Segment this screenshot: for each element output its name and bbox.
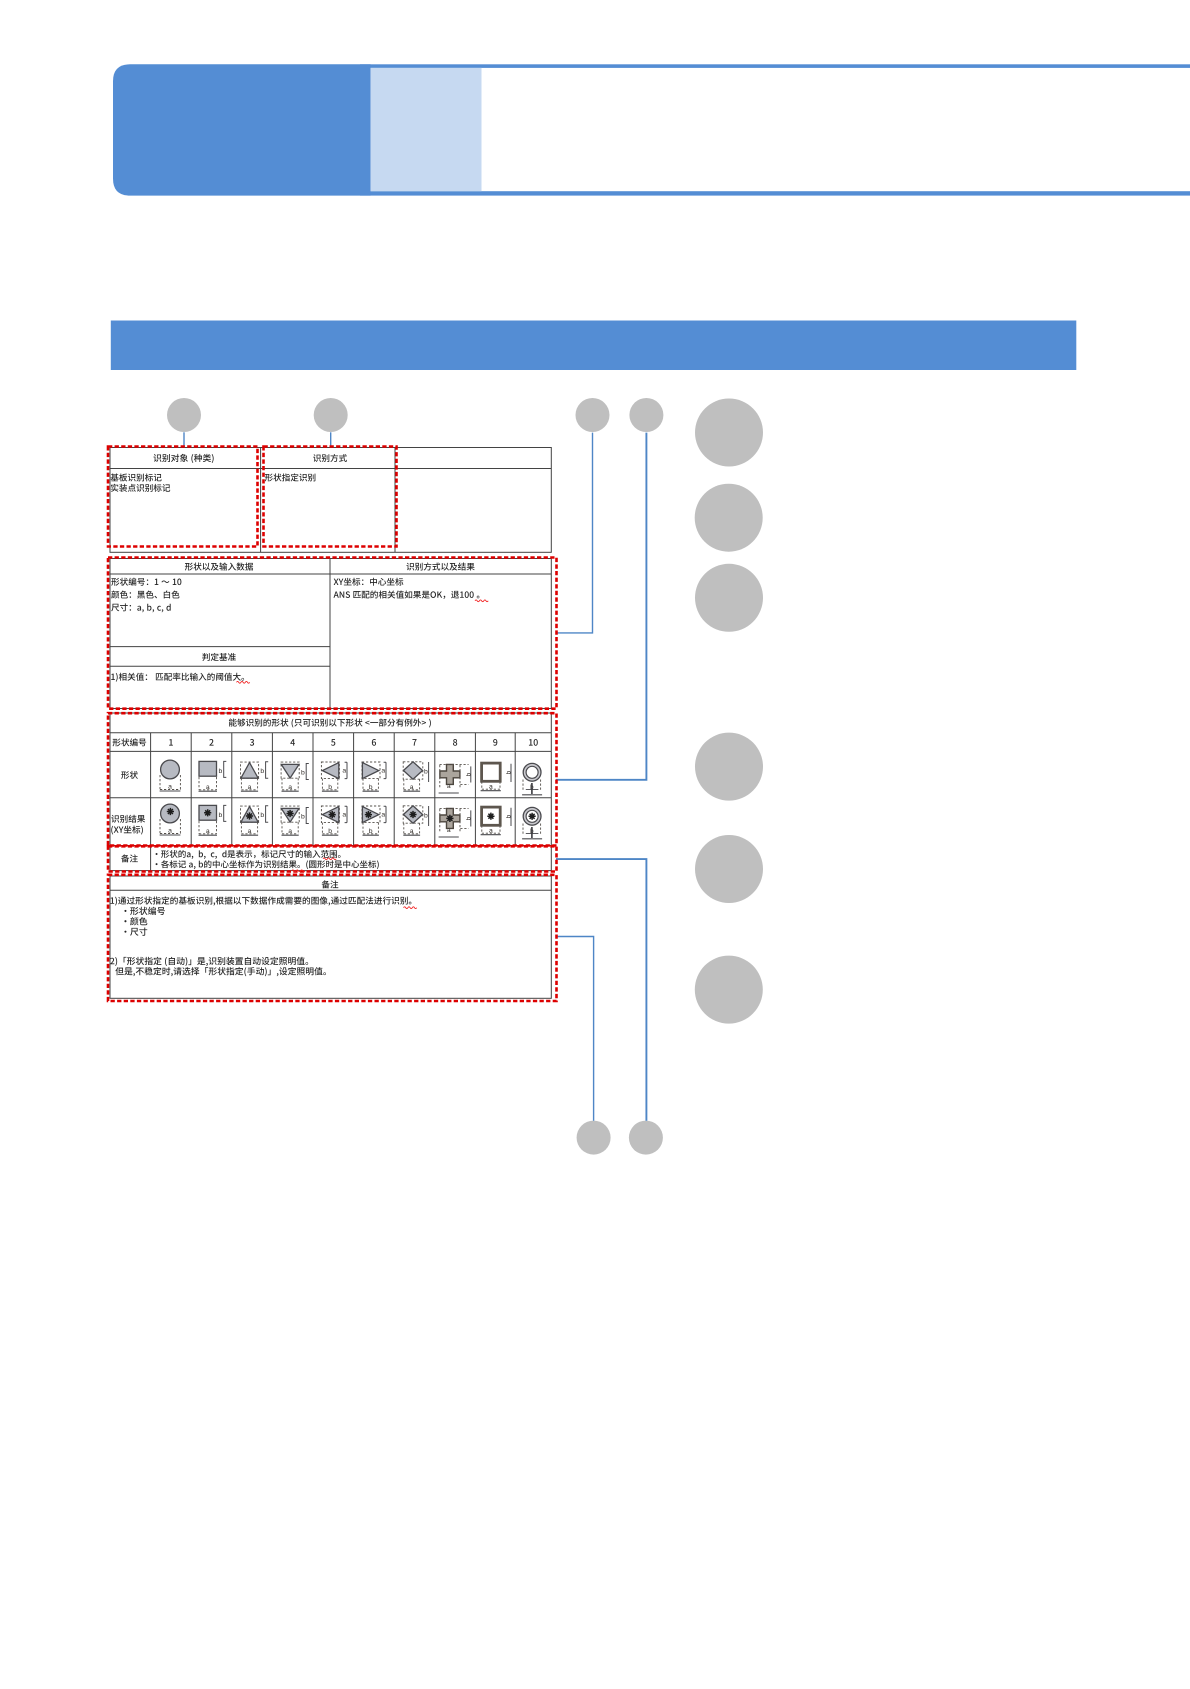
- table A: outer border: [110, 448, 551, 553]
- svg-text:a: a: [342, 812, 346, 819]
- shape diagram column 3 (shape row): [241, 762, 269, 791]
- shape diagram column 1 (result row with asterisk): [160, 804, 181, 835]
- svg-text:b: b: [369, 828, 373, 835]
- svg-text:a: a: [168, 784, 172, 791]
- shape diagram column 5 (shape row): [321, 762, 347, 791]
- table C: column dividers: [191, 733, 515, 846]
- banner bottom border line: [360, 191, 1190, 195]
- document text (glyph outlines): [110, 454, 538, 976]
- large gray circle 1: [695, 399, 763, 467]
- table B: header underline: [110, 573, 551, 575]
- large gray circle 2: [695, 484, 763, 552]
- section title bar: [111, 321, 1077, 371]
- table D: outer border: [110, 876, 551, 998]
- connector line callout 2: [330, 432, 332, 446]
- spellcheck squiggle after 100: [475, 600, 488, 602]
- spellcheck squiggle remark row line1: [323, 858, 336, 860]
- svg-text:b: b: [260, 812, 264, 819]
- shape diagram column 4 (result row with asterisk): [281, 806, 309, 835]
- shape diagram column 7 (shape row): [403, 762, 428, 791]
- large gray circle 6: [695, 956, 763, 1024]
- small callout circle 2: [314, 398, 348, 432]
- svg-text:a: a: [489, 783, 493, 790]
- svg-text:b: b: [219, 768, 223, 775]
- shape diagram column 1 (shape row): [160, 760, 181, 791]
- shape diagram column 2 (result row with asterisk): [199, 805, 227, 835]
- shape diagram column 5 (result row with asterisk): [321, 806, 347, 835]
- table C: horizontal lines: [110, 733, 551, 846]
- small callout circle 4: [629, 398, 663, 432]
- shape diagram column 6 (shape row): [362, 762, 386, 791]
- svg-text:b: b: [369, 784, 373, 791]
- table D: header underline: [110, 889, 551, 891]
- shape diagram column 10 (result row with asterisk): [522, 807, 542, 838]
- dashed box: notes block: [108, 875, 557, 1001]
- svg-text:b: b: [301, 813, 305, 820]
- table A: header underline: [110, 468, 551, 470]
- shape diagram column 9 (result row with asterisk): [481, 807, 513, 835]
- table C: outer border: [110, 713, 551, 871]
- svg-text:b: b: [424, 769, 428, 776]
- shape diagram column 3 (result row with asterisk): [241, 806, 269, 835]
- svg-text:a: a: [381, 768, 385, 775]
- table C: label column divider: [150, 733, 152, 871]
- shape diagram column 8 (result row with asterisk): [439, 808, 473, 837]
- svg-text:a: a: [447, 783, 451, 790]
- svg-text:b: b: [424, 813, 428, 820]
- small callout circle 5: [577, 1121, 611, 1155]
- svg-text:a: a: [168, 828, 172, 835]
- banner dark blue block: [113, 64, 371, 195]
- connector line callout 6 bottom: [556, 859, 646, 1121]
- svg-text:a: a: [288, 828, 292, 835]
- banner light blue block: [371, 68, 482, 191]
- dashed box: shapes remark row: [108, 846, 557, 871]
- svg-text:b: b: [328, 784, 332, 791]
- shape diagram column 7 (result row with asterisk): [403, 806, 428, 835]
- shape diagram column 10 (shape row): [522, 763, 542, 794]
- connector line callout 3: [556, 433, 593, 633]
- spellcheck squiggle notes row: [404, 907, 417, 909]
- small callout circle 1: [167, 398, 201, 432]
- large gray circle 4: [695, 733, 763, 801]
- svg-text:a: a: [381, 812, 385, 819]
- svg-text:a: a: [410, 828, 414, 835]
- spellcheck squiggle block2 criteria: [237, 681, 250, 683]
- table A: column dividers: [261, 448, 395, 553]
- svg-text:b: b: [301, 769, 305, 776]
- svg-text:a: a: [206, 784, 210, 791]
- banner top border line: [360, 64, 1190, 68]
- svg-text:b: b: [506, 771, 513, 775]
- table B: center divider: [329, 559, 331, 709]
- spellcheck squiggle remark row line2: [292, 870, 305, 872]
- shape diagram column 9 (shape row): [481, 763, 513, 791]
- svg-text:a: a: [206, 828, 210, 835]
- large gray circle 5: [695, 835, 763, 903]
- svg-text:b: b: [260, 768, 264, 775]
- small callout circle 6: [629, 1121, 663, 1155]
- svg-text:b: b: [219, 812, 223, 819]
- svg-text:b: b: [506, 815, 513, 819]
- svg-text:a: a: [410, 784, 414, 791]
- table B: outer border: [110, 559, 551, 709]
- dashed box: recognizable shapes block: [108, 713, 557, 845]
- connector line callout 4: [556, 433, 646, 780]
- svg-text:a: a: [248, 828, 252, 835]
- shape diagram column 4 (shape row): [281, 762, 309, 791]
- svg-text:b: b: [465, 817, 472, 821]
- dashed box: recognition target column: [108, 447, 258, 547]
- svg-text:b: b: [328, 828, 332, 835]
- small callout circle 3: [576, 398, 610, 432]
- shape diagram column 8 (shape row): [439, 764, 473, 793]
- shape diagram column 6 (result row with asterisk): [362, 806, 386, 835]
- table B: judge criteria row lines: [110, 647, 330, 667]
- svg-text:a: a: [288, 784, 292, 791]
- svg-text:a: a: [248, 784, 252, 791]
- svg-text:a: a: [489, 827, 493, 834]
- connector line callout 1: [183, 432, 185, 446]
- svg-text:a: a: [447, 827, 451, 834]
- large gray circle 3: [695, 564, 763, 632]
- svg-text:a: a: [342, 768, 346, 775]
- connector line callout 5 bottom: [556, 937, 594, 1121]
- dashed box: shape and input data block: [108, 558, 557, 709]
- svg-text:b: b: [465, 773, 472, 777]
- dashed box: recognition method column: [264, 447, 397, 547]
- shape diagram column 2 (shape row): [199, 761, 227, 791]
